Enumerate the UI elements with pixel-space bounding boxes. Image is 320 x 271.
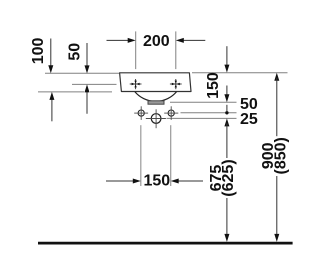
- fixing-hole-level leader line (50 label): [181, 112, 237, 114]
- dimension 100 bottom arrow: [51, 95, 53, 121]
- drain-level leader line (150 below rim): [170, 101, 237, 103]
- dimension 900 bottom arrow to floor: [276, 176, 278, 238]
- siphon-level leader line (25 label): [167, 117, 237, 119]
- svg-text:25: 25: [240, 111, 258, 128]
- fixing hole left circle: [138, 110, 144, 116]
- 100-level line left: [38, 91, 84, 93]
- svg-text:50: 50: [66, 43, 83, 61]
- dimension 200 arrow right: [180, 39, 206, 41]
- dimension 150 (bottom) arrow right: [175, 180, 204, 182]
- dimension 200 extension line left: [135, 31, 137, 69]
- dimension 150 (bottom) extension line right: [170, 125, 172, 186]
- rim extension line right: [192, 72, 288, 74]
- svg-text:(850): (850): [272, 137, 289, 174]
- siphon circle: [151, 114, 161, 124]
- svg-text:150: 150: [205, 72, 222, 99]
- tap hole mark right: [170, 79, 182, 89]
- dimension 675 bottom arrow to floor: [226, 198, 228, 238]
- dimension 50/25 connector and dot: [226, 105, 228, 111]
- svg-text:150: 150: [143, 172, 170, 189]
- dimension 150 (bottom) extension line left: [140, 125, 142, 186]
- tap hole mark left: [130, 79, 142, 89]
- dimension 50 bottom arrow: [86, 88, 88, 114]
- fixing hole right crosshair: [164, 112, 178, 114]
- 50-level line left: [72, 83, 117, 85]
- svg-text:(625): (625): [220, 159, 237, 196]
- dimension 900 top arrow (points up to rim): [274, 73, 279, 81]
- floor line: [38, 242, 293, 245]
- sink bowl arc: [135, 92, 177, 102]
- dimension 675 top arrow (points up to siphon level): [224, 118, 229, 126]
- dimension 50 top arrow: [86, 43, 88, 70]
- fixing hole right circle: [168, 110, 174, 116]
- dimension 150 (right) bottom arrow: [226, 86, 228, 100]
- dimension 100 top arrow: [50, 39, 52, 71]
- dimension 150 (bottom) arrow left: [106, 180, 137, 182]
- rim extension line left: [45, 72, 119, 74]
- dimension 200 arrow left: [107, 39, 133, 41]
- dimension 200 extension line right: [175, 31, 177, 69]
- fixing hole left crosshair: [134, 112, 148, 114]
- svg-text:100: 100: [30, 37, 47, 64]
- drain rectangle: [148, 101, 164, 104]
- svg-text:200: 200: [143, 33, 170, 50]
- siphon crosshair: [146, 118, 166, 120]
- dimension 150 (right) top arrow: [226, 46, 228, 69]
- sink body outline: [120, 73, 191, 92]
